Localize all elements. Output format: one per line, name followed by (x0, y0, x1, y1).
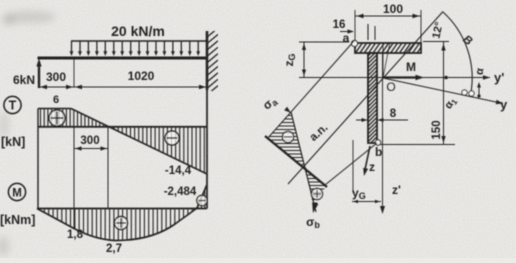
M positive hatch (40, 206, 197, 243)
yG dimension line (352, 201, 381, 203)
axis y prime (383, 77, 490, 79)
projection line from a (267, 41, 354, 139)
axis y (383, 78, 503, 104)
dimension 300 (beam) (39, 86, 207, 88)
extension line flange left down (352, 140, 354, 193)
wall fixed support (206, 31, 209, 90)
scan smudge top-left (0, 11, 56, 256)
axis z prime (382, 53, 384, 210)
plus circle sigma-b (311, 188, 322, 199)
flange outline (355, 43, 421, 53)
zero crossing extension (107, 127, 109, 208)
force 6kN arrow (38, 62, 40, 88)
moment arrow M (383, 76, 419, 78)
T negative hatch (110, 125, 204, 176)
minus circle M (197, 195, 207, 205)
T diagram sloping line (71, 109, 207, 175)
T diagram top edge +6 (38, 108, 71, 110)
angle alpha marks (462, 90, 467, 95)
stress envelope line (291, 112, 316, 212)
right edge vertical at wall (206, 90, 208, 209)
T positive hatch (41, 106, 108, 128)
point b (375, 140, 380, 145)
load start extension through diagrams (73, 127, 75, 228)
label circle M (8, 183, 25, 200)
axis z (365, 146, 371, 172)
distributed load 20 kN/m (71, 40, 207, 42)
T zero axis (38, 126, 207, 128)
arc beta (443, 12, 472, 95)
T diagram left edge (37, 109, 39, 209)
sigma-b triangle hatch (303, 168, 329, 210)
web outline (368, 53, 377, 143)
dimension 100 (355, 15, 421, 17)
dimension 150 (423, 41, 449, 43)
M negative hatch (198, 182, 205, 209)
projection line from b (325, 143, 377, 185)
minus circle T (165, 131, 179, 145)
neutral axis a.n. line (288, 12, 443, 185)
dimension 300 (zero crossing) (74, 148, 108, 150)
dimension zG (299, 41, 349, 43)
M zero axis (37, 208, 207, 210)
plus circle M (115, 217, 128, 230)
dimension 1020 (75, 85, 82, 89)
axis z up faint (382, 43, 384, 78)
sigma-b arrow (312, 203, 318, 214)
extension line load start (73, 59, 75, 87)
web hatch (366, 44, 380, 156)
flange hatch (349, 40, 435, 56)
plus circle T (49, 110, 65, 126)
sigma-a triangle hatch (262, 112, 308, 165)
label circle T (4, 96, 21, 113)
stress baseline (265, 136, 327, 187)
minus circle sigma-a (282, 131, 293, 142)
M parabola (37, 185, 207, 241)
dimension 8 web (356, 119, 367, 121)
beam (38, 57, 209, 60)
